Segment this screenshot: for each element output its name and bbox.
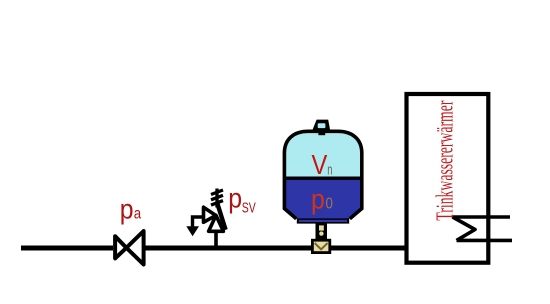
valve V1 shut-off: [115, 231, 144, 265]
expansion vessel bottom flange: [297, 218, 349, 223]
wire pipe tee to heater: [328, 246, 406, 251]
svg-text:0: 0: [326, 196, 334, 213]
Trinkwassererwaermer box: [407, 94, 489, 263]
expansion vessel body blue bottom: [284, 178, 361, 219]
wire coil bottom outlet: [457, 239, 513, 243]
safety valve spring: [211, 189, 223, 208]
tee connector: [312, 240, 329, 252]
svg-text:SV: SV: [242, 201, 256, 217]
svg-text:p: p: [228, 183, 242, 214]
vessel fitting valve: [316, 223, 328, 241]
expansion vessel divider: [284, 176, 362, 179]
safety valve lever diagonal: [217, 203, 225, 230]
svg-text:a: a: [134, 206, 142, 223]
svg-text:p: p: [120, 194, 134, 225]
label pa: [120, 194, 142, 225]
expansion vessel body cyan top: [284, 131, 361, 178]
wire pipe valve to tee: [144, 246, 315, 251]
safety valve stem: [214, 231, 218, 248]
label Vn: [312, 149, 333, 180]
expansion vessel top lug: [312, 120, 331, 136]
wire coil top outlet: [453, 215, 510, 219]
safety valve left triangle: [204, 207, 216, 222]
svg-text:p: p: [311, 184, 325, 215]
heat exchanger coil: [453, 217, 475, 240]
expansion vessel outline: [284, 131, 361, 219]
svg-text:V: V: [312, 149, 328, 180]
svg-text:n: n: [327, 161, 332, 178]
wire main pipe left segment: [21, 246, 113, 251]
safety valve discharge arrow: [186, 217, 203, 236]
svg-text:Trinkwassererwärmer: Trinkwassererwärmer: [432, 101, 459, 221]
safety valve body up-triangle: [209, 215, 224, 231]
label p0: [311, 184, 333, 215]
label pSV: [228, 183, 256, 217]
